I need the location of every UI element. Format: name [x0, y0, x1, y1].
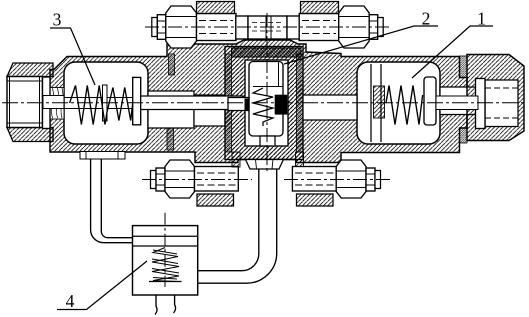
centerline cartridge vertical: [266, 13, 268, 174]
spool inner bore lines: [253, 62, 283, 87]
right chamber disc lines: [371, 64, 381, 142]
bottom-left assembly bolt tip: [151, 171, 157, 189]
bore cartridge to right chamber: [303, 95, 357, 120]
top-left assembly bolt tip: [152, 18, 158, 37]
center cartridge outer: [225, 47, 303, 160]
top-right sleeve: [299, 14, 339, 41]
centerline main axis: [2, 102, 527, 104]
bottom-left pedestal: [232, 152, 240, 167]
shaft rod through left chamber: [64, 98, 133, 109]
spring 3 inner: [107, 88, 133, 121]
spring 1: [386, 86, 423, 125]
bore right chamber to right cap: [440, 87, 476, 115]
shaft rod left of chamber: [43, 96, 64, 109]
top center block: [248, 16, 287, 39]
bore between left chamber and cartridge: [148, 91, 194, 128]
bore narrow step: [194, 95, 225, 126]
spool black seal right: [275, 95, 288, 115]
rod washer to right bore: [436, 96, 478, 110]
center pipe: [198, 169, 277, 283]
right cap bore hidden lines: [485, 88, 518, 118]
cartridge top cap: [232, 48, 302, 57]
left thread bore: [50, 88, 64, 120]
centerline bottom-right assembly: [284, 179, 390, 181]
bottom-right hex nut: [336, 160, 366, 198]
bottom-left hex nut: [165, 160, 195, 198]
centerline box vertical: [164, 213, 166, 287]
body seam thread strip: [169, 54, 175, 75]
right chamber cavity: [357, 62, 440, 144]
right cap thread strip top: [460, 56, 468, 78]
right cap thread strip bottom: [460, 128, 468, 143]
washer strip left: [43, 77, 51, 129]
top-left collar: [236, 16, 248, 39]
left pipe: [91, 159, 133, 243]
top-left sleeve: [197, 14, 237, 41]
main body hatched mass: [50, 40, 467, 163]
svg-text:4: 4: [66, 291, 75, 311]
left port lugs: [80, 152, 125, 160]
top-left hatched cap: [197, 2, 235, 14]
rod into cartridge left: [228, 98, 249, 111]
cartridge chamber: [245, 60, 288, 146]
body left cap bottom band: [7, 128, 53, 142]
bottom-left sleeve: [195, 167, 239, 192]
spring seat washer right: [424, 77, 436, 125]
valve box 4: [133, 226, 198, 295]
centerline top assemblies: [145, 26, 390, 28]
spring 3 outer: [70, 86, 107, 125]
cartridge bottom nut: [246, 160, 284, 170]
washer strip right: [476, 79, 486, 129]
spring seat small left: [103, 85, 108, 121]
spool nose: [260, 136, 275, 146]
bottom-right hatched cap: [297, 194, 334, 206]
top-right collar: [287, 16, 299, 39]
top-right hex nut: [339, 6, 370, 48]
cartridge thread strip left: [225, 54, 232, 152]
spool body: [249, 62, 283, 137]
bottom-right pedestal: [296, 152, 304, 167]
left chamber cavity: [64, 62, 148, 144]
top-right hatched cap: [301, 2, 339, 14]
body left cap top band: [7, 63, 53, 77]
cartridge spring: [253, 88, 273, 126]
right cap bore: [485, 80, 518, 127]
cartridge thread strip right: [297, 54, 304, 152]
right end cap: [467, 55, 524, 141]
top-left hex nut: [166, 6, 197, 48]
box spring: [152, 248, 179, 282]
left hex plug face: [7, 77, 43, 128]
spool black seal left: [245, 99, 250, 111]
top-right bolt tip: [369, 15, 378, 40]
right chamber piston hatched: [374, 86, 385, 118]
box outlet stub: [155, 295, 157, 315]
bottom-left hatched cap: [197, 194, 234, 206]
bottom-right sleeve: [292, 167, 336, 192]
piston flange left chamber: [133, 77, 141, 124]
left hex plug facet lines: [10, 77, 40, 128]
bottom seam thread strip: [167, 128, 174, 150]
rod flange to cartridge: [141, 96, 243, 110]
bottom-right bolt tip: [366, 168, 375, 191]
centerline bottom-left assembly: [142, 179, 252, 181]
svg-text:3: 3: [53, 10, 62, 30]
